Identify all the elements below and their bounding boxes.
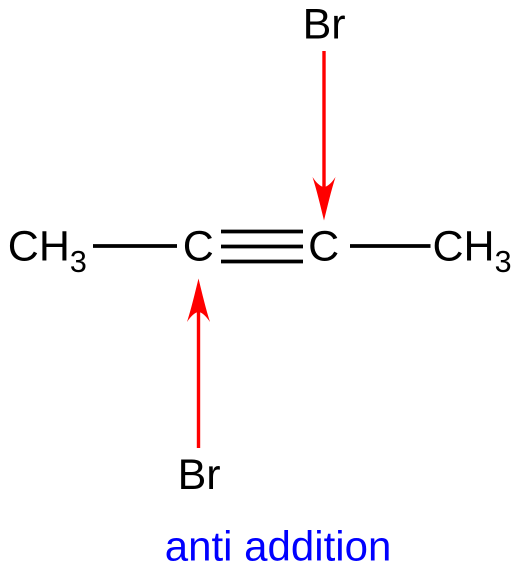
red arrowhead pointing up at left alkyne carbon [187, 279, 210, 323]
svg-text:CH3: CH3 [433, 223, 512, 279]
svg-text:anti addition: anti addition [165, 522, 392, 569]
svg-text:Br: Br [303, 0, 346, 48]
svg-text:C: C [308, 223, 339, 271]
wire triple bond line middle [221, 245, 303, 249]
wire triple bond line top [221, 230, 303, 234]
red arrowhead pointing down at right alkyne carbon [313, 177, 336, 221]
wire single bond right [350, 244, 431, 248]
svg-text:CH3: CH3 [8, 223, 87, 279]
wire single bond left [93, 244, 177, 248]
wire red arrow shaft (up arrow) [197, 300, 200, 448]
svg-text:Br: Br [178, 451, 221, 499]
wire red arrow shaft (down arrow) [322, 51, 325, 200]
wire triple bond line bottom [221, 260, 303, 264]
svg-text:C: C [183, 223, 214, 271]
